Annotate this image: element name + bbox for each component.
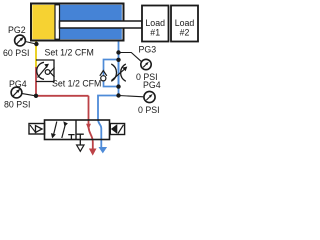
- flow control V2 bypass branch: [100, 60, 128, 87]
- svg-text:PG2: PG2: [8, 25, 26, 35]
- red flow arrow below valve: [89, 149, 97, 156]
- gauge PG2: [3, 25, 35, 58]
- junction node PG2 tap: [34, 42, 38, 46]
- load box #1: [142, 6, 169, 42]
- junction node red manifold: [34, 94, 38, 98]
- svg-text:Load: Load: [175, 18, 195, 28]
- blocked port T2 with exhaust stem: [77, 134, 84, 145]
- valve V3 pilot return right: [110, 124, 124, 135]
- svg-text:80 PSI: 80 PSI: [4, 100, 30, 110]
- wire blue through flow control to junction: [118, 60, 120, 96]
- flow control V1 body: [36, 60, 55, 82]
- gauge PG4 left: [4, 79, 34, 110]
- piston: [55, 5, 60, 39]
- wire rod-side blue from cylinder: [118, 42, 120, 60]
- wire cap-side red segment to valve: [36, 67, 89, 96]
- svg-text:#1: #1: [150, 27, 160, 37]
- red flow arrow inside valve: [86, 124, 91, 130]
- cylinder cap-side yellow fill: [32, 5, 55, 39]
- wire red through valve: [89, 96, 93, 149]
- svg-text:PG4: PG4: [143, 80, 161, 90]
- gauge PG4 right: [119, 80, 161, 115]
- junction node FC2 top: [116, 58, 120, 62]
- svg-text:0 PSI: 0 PSI: [138, 105, 160, 115]
- valve V3 body: [45, 120, 110, 145]
- blocked port T1: [68, 135, 74, 140]
- position 1 arrow down: [54, 122, 57, 135]
- blue flow arrow below valve: [99, 147, 108, 153]
- svg-text:#2: #2: [180, 27, 190, 37]
- piston rod: [60, 21, 143, 28]
- junction node PG3 tap: [116, 50, 120, 54]
- valve V3 pilot-solenoid left: [29, 124, 45, 135]
- svg-text:PG3: PG3: [139, 45, 157, 55]
- svg-text:Set 1/2 CFM: Set 1/2 CFM: [45, 47, 94, 57]
- junction node PG4 tap: [116, 93, 120, 97]
- position 1 arrow up: [62, 125, 65, 138]
- junction node FC2 bottom: [116, 84, 120, 88]
- exhaust triangle: [77, 145, 84, 151]
- cylinder rod-side blue fill: [60, 5, 122, 39]
- svg-text:Load: Load: [145, 18, 165, 28]
- svg-text:Set 1/2 CFM: Set 1/2 CFM: [52, 79, 101, 89]
- wire cap-side yellow segment: [35, 42, 37, 68]
- wire blue horizontal to valve drop: [98, 96, 119, 148]
- svg-text:60 PSI: 60 PSI: [3, 48, 29, 58]
- svg-text:PG4: PG4: [9, 79, 27, 89]
- load box #2: [171, 6, 198, 42]
- gauge PG3: [119, 45, 158, 82]
- cylinder A1 barrel: [31, 4, 124, 41]
